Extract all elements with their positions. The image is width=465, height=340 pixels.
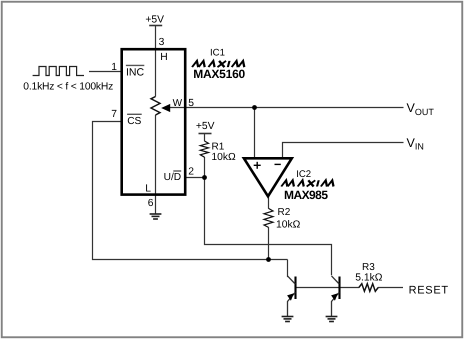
svg-text:CS: CS	[127, 116, 141, 127]
svg-text:5: 5	[188, 98, 194, 109]
svg-text:H: H	[160, 52, 167, 63]
svg-text:2: 2	[188, 166, 194, 177]
svg-text:5.1kΩ: 5.1kΩ	[355, 272, 382, 283]
svg-text:6: 6	[148, 198, 154, 209]
svg-text:IC1: IC1	[210, 48, 225, 59]
svg-text:+5V: +5V	[196, 121, 215, 132]
svg-text:W: W	[173, 98, 183, 109]
svg-text:MAX5160: MAX5160	[193, 67, 245, 81]
svg-text:R2: R2	[278, 207, 291, 218]
svg-text:L: L	[145, 184, 151, 195]
svg-text:U/D: U/D	[164, 172, 182, 183]
svg-text:MAX985: MAX985	[284, 188, 328, 202]
svg-text:0.1kHz < f < 100kHz: 0.1kHz < f < 100kHz	[23, 81, 113, 92]
svg-text:7: 7	[111, 109, 117, 120]
svg-text:+5V: +5V	[145, 15, 164, 26]
svg-text:IC2: IC2	[296, 169, 311, 180]
svg-text:10kΩ: 10kΩ	[211, 152, 236, 163]
svg-text:10kΩ: 10kΩ	[276, 219, 301, 230]
svg-text:INC: INC	[126, 67, 145, 79]
svg-text:R1: R1	[212, 142, 225, 153]
svg-text:1: 1	[111, 62, 117, 73]
svg-text:RESET: RESET	[409, 284, 449, 296]
svg-text:3: 3	[159, 37, 165, 48]
